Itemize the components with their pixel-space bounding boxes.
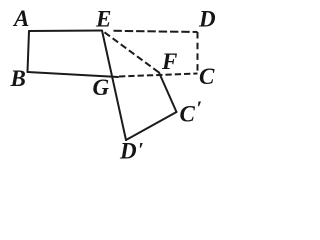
svg-text:E: E: [95, 7, 111, 32]
svg-text:D′: D′: [119, 139, 144, 164]
svg-text:C: C: [199, 64, 215, 89]
wire fold line EF (dashed diagonal): [105, 32, 160, 72]
svg-text:C′: C′: [180, 98, 202, 127]
svg-text:F: F: [161, 49, 177, 74]
wire side BG (bottom edge, solid part): [28, 72, 119, 77]
wire side GC (bottom edge, dashed hidden part): [119, 74, 198, 77]
wire segment D'C' (solid): [126, 112, 177, 140]
wire side AE (top edge, solid): [29, 30, 102, 33]
svg-text:A: A: [12, 6, 29, 31]
svg-text:G: G: [93, 75, 110, 100]
svg-text:B: B: [10, 66, 26, 91]
wire segment ED' through node G (solid): [102, 31, 126, 141]
svg-text:D: D: [198, 7, 216, 32]
wire side ED (top edge, dashed hidden part): [114, 31, 198, 32]
wire side DC (right edge, dashed): [197, 32, 199, 72]
wire segment C'F (solid): [159, 73, 177, 113]
wire side AB (left edge, solid): [28, 31, 30, 72]
